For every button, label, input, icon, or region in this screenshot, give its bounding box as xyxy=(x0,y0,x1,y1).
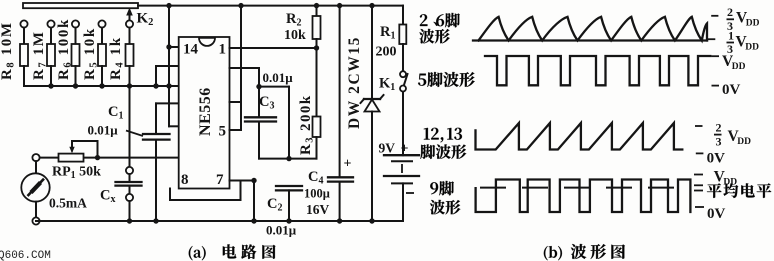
svg-text:9V: 9V xyxy=(379,141,396,156)
svg-text:5: 5 xyxy=(219,124,227,140)
svg-text:2: 2 xyxy=(716,121,722,135)
wire pin2 stub to C3 xyxy=(230,68,262,117)
svg-text:0.5mA: 0.5mA xyxy=(49,196,87,211)
wire pin12 stub to C1 xyxy=(156,103,179,134)
label 0V (wf3) xyxy=(696,151,725,167)
capacitor Cx branch xyxy=(116,86,142,224)
svg-text:+: + xyxy=(344,157,352,172)
label VDD (wf2) xyxy=(712,53,746,72)
caption (a) xyxy=(189,246,206,260)
svg-text:0V: 0V xyxy=(722,82,741,98)
resistor R1 xyxy=(399,6,406,72)
switch K1 xyxy=(400,71,408,155)
wire pin4 VDD branch xyxy=(230,3,244,130)
IC U1 NE556 xyxy=(179,37,230,189)
resistor R7 xyxy=(47,20,55,86)
wire resistor-bank bottom node xyxy=(24,85,179,87)
waveform pin 9 PWM xyxy=(476,180,691,213)
potentiometer RP1 xyxy=(59,141,98,162)
svg-text:Cx: Cx xyxy=(100,188,115,206)
resistor R4 xyxy=(126,20,134,86)
wire pin13 stub xyxy=(156,66,179,86)
wire VDD branch to pin14 xyxy=(166,3,178,126)
svg-text:14: 14 xyxy=(183,42,199,58)
waveform pin 2,6 sawtooth xyxy=(473,39,707,41)
wire pin6 link xyxy=(259,87,289,159)
svg-text:R5 10k: R5 10k xyxy=(82,27,100,80)
svg-text:200: 200 xyxy=(376,45,397,60)
svg-text:DD: DD xyxy=(745,42,759,52)
label waveform pins 12,13 xyxy=(424,128,462,143)
capacitor C4 xyxy=(328,3,353,224)
leader line C1 xyxy=(126,131,143,137)
label VDD (wf4) xyxy=(694,169,737,188)
waveform pin 12,13 ramp xyxy=(476,123,683,150)
svg-text:1: 1 xyxy=(219,42,227,58)
svg-text:0.01μ: 0.01μ xyxy=(88,123,119,138)
svg-text:K1: K1 xyxy=(379,76,395,94)
svg-text:0.01μ: 0.01μ xyxy=(263,70,294,85)
capacitor C1 xyxy=(143,134,170,158)
resistor R8 xyxy=(20,20,28,86)
svg-text:DD: DD xyxy=(737,137,751,147)
IC notch xyxy=(199,38,215,46)
capacitor C3 xyxy=(245,117,276,158)
svg-text:R8 10M: R8 10M xyxy=(0,21,17,80)
wire ground rail xyxy=(36,220,403,222)
svg-text:C2: C2 xyxy=(267,196,282,214)
resistor R6 xyxy=(72,20,80,86)
resistor R5 xyxy=(98,20,106,86)
svg-text:R1: R1 xyxy=(380,24,395,42)
svg-text:1: 1 xyxy=(728,29,734,43)
resistor R2 xyxy=(313,3,321,48)
svg-text:100μ: 100μ xyxy=(304,187,330,201)
wire pin1 to R2/R3 node xyxy=(230,45,320,50)
wire top supply rail xyxy=(138,5,403,7)
svg-text:C1: C1 xyxy=(108,104,123,122)
wire timing node horizontal xyxy=(36,155,179,160)
svg-text:0V: 0V xyxy=(707,206,726,222)
label waveform pins 2,6 xyxy=(420,13,460,27)
svg-text:RP1 50k: RP1 50k xyxy=(52,165,101,182)
waveform pin 5 square xyxy=(485,56,710,85)
svg-text:R6 100k: R6 100k xyxy=(56,18,74,80)
svg-text:10k: 10k xyxy=(284,28,306,43)
label battery minus xyxy=(406,192,414,194)
label 2/3 VDD (wf1) xyxy=(711,5,759,33)
average level dashed line xyxy=(481,187,688,189)
capacitor C2 xyxy=(276,186,302,224)
svg-text:0.01μ: 0.01μ xyxy=(266,223,297,238)
svg-text:C4: C4 xyxy=(308,169,323,187)
label 2/3 VDD (wf3) xyxy=(695,121,751,149)
label 0V (wf2) xyxy=(712,82,741,98)
wire pin14 stub xyxy=(169,46,179,48)
label 1/3 VDD (wf1) xyxy=(708,29,759,57)
label 0V (wf4) xyxy=(695,206,726,222)
svg-text:DD: DD xyxy=(732,62,746,72)
svg-text:+: + xyxy=(401,142,409,157)
svg-text:R4 1k: R4 1k xyxy=(108,36,126,80)
caption (b) xyxy=(544,246,562,260)
label waveform pin 9 xyxy=(430,181,454,195)
switch K2 wiper arrow xyxy=(126,8,133,25)
svg-text:DD: DD xyxy=(746,19,760,29)
svg-text:3: 3 xyxy=(716,134,722,148)
svg-text:C3: C3 xyxy=(259,94,274,112)
switch K2 selector bar xyxy=(23,3,138,8)
label waveform pin 5 xyxy=(418,72,475,87)
svg-text:DW 2CW15: DW 2CW15 xyxy=(346,36,363,129)
zener diode DW 2CW15 xyxy=(361,3,384,224)
svg-text:R7 1M: R7 1M xyxy=(31,30,49,80)
svg-text:R3 200k: R3 200k xyxy=(298,95,316,155)
label average level xyxy=(694,185,703,190)
svg-text:7: 7 xyxy=(216,172,224,188)
wire pin7 branch xyxy=(230,178,257,224)
resistor R3 xyxy=(313,48,321,159)
wire node under R3 xyxy=(259,156,317,161)
svg-text:NE556: NE556 xyxy=(197,87,214,136)
svg-text:8: 8 xyxy=(181,172,189,188)
svg-text:Q606.COM: Q606.COM xyxy=(0,250,51,261)
svg-text:2: 2 xyxy=(727,5,733,19)
wire pin8 loop under IC xyxy=(170,181,241,201)
svg-text:0V: 0V xyxy=(707,151,726,167)
svg-text:K2: K2 xyxy=(137,11,154,29)
meter 0.5mA xyxy=(21,154,49,225)
svg-text:16V: 16V xyxy=(306,202,330,217)
battery 9V xyxy=(384,155,419,221)
svg-text:R2: R2 xyxy=(286,11,301,29)
wire C1 ground leg xyxy=(153,158,158,224)
